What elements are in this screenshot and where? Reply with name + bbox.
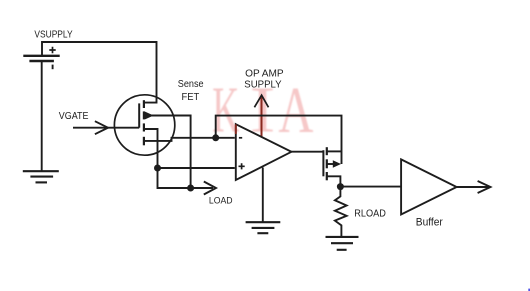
wire VGATE to gate bbox=[73, 127, 139, 129]
op-amp supply arrowhead bbox=[254, 95, 268, 107]
wire buffer output bbox=[457, 186, 489, 188]
ground (op-amp) bbox=[246, 222, 281, 233]
wire Q1 sense terminal to LOAD node bbox=[144, 116, 191, 189]
Q2 channel segment 1 bbox=[326, 147, 328, 155]
Q2 drain tick bbox=[327, 150, 342, 152]
op-amp supply red shaft bbox=[261, 96, 263, 137]
Q2 channel segment 2 bbox=[326, 159, 328, 168]
svg-text:FET: FET bbox=[182, 92, 200, 103]
node dot LOAD junction bbox=[187, 185, 194, 192]
Q2 body arrow bbox=[333, 160, 341, 168]
Q1 gate bar bbox=[138, 103, 140, 127]
svg-text:OP AMP: OP AMP bbox=[245, 68, 284, 79]
svg-text:SUPPLY: SUPPLY bbox=[244, 79, 282, 90]
wire Q2 source to buffer input bbox=[340, 186, 401, 188]
op-amp U1 triangle bbox=[236, 124, 292, 180]
VGATE arrowhead bbox=[95, 121, 108, 134]
svg-text:VGATE: VGATE bbox=[59, 111, 89, 122]
watermark KIA bbox=[212, 74, 313, 147]
node dot Q2 source junction bbox=[337, 183, 344, 190]
output arrowhead bbox=[478, 181, 491, 193]
node dot source junction bbox=[154, 165, 161, 172]
op-amp plus sign bbox=[239, 163, 245, 169]
battery plus label bbox=[49, 47, 55, 53]
svg-text:A: A bbox=[278, 74, 313, 147]
Q2 body arrow shaft bbox=[327, 163, 334, 165]
buffer U2 triangle bbox=[401, 159, 457, 214]
battery minus label bbox=[52, 65, 54, 70]
wire battery negative to ground bbox=[41, 61, 43, 171]
wire plus input bbox=[158, 167, 235, 169]
transistor Q2 gate bar bbox=[322, 150, 324, 176]
op-amp minus sign bbox=[239, 137, 242, 139]
Q1 channel segment 1 bbox=[143, 100, 145, 108]
resistor RLOAD bbox=[335, 187, 347, 237]
Q2 channel segment 3 bbox=[326, 172, 328, 180]
svg-text:LOAD: LOAD bbox=[209, 195, 233, 206]
transistor Q1 sense FET circle bbox=[114, 95, 174, 155]
wire Q1 main source down to plus input and LOAD bbox=[144, 129, 213, 188]
Q1 channel segment 4 bbox=[143, 137, 145, 146]
svg-text:Sense: Sense bbox=[178, 79, 204, 90]
battery VSUPPLY negative plate bbox=[29, 60, 54, 62]
Q2 source wire bbox=[327, 176, 341, 183]
ground (battery) bbox=[23, 171, 59, 182]
wire Q1 kelvin source to minus input bbox=[144, 138, 235, 141]
svg-text:VSUPPLY: VSUPPLY bbox=[34, 29, 72, 40]
wire VSUPPLY rail to sense FET drain bbox=[42, 42, 157, 103]
svg-text:Buffer: Buffer bbox=[416, 217, 443, 229]
op-amp red corner segment bbox=[235, 124, 237, 134]
Q1 channel segment 2 bbox=[143, 111, 145, 119]
wire op-amp output to Q2 gate bbox=[291, 151, 323, 153]
wire op-amp ground bbox=[262, 168, 264, 222]
LOAD arrowhead bbox=[204, 182, 216, 195]
wire feedback rail to Q2 drain bbox=[216, 116, 342, 164]
Q1 body arrow bbox=[145, 112, 154, 120]
battery VSUPPLY positive plate bbox=[23, 55, 59, 57]
blue corner mark bbox=[528, 289, 530, 291]
ground (RLOAD) bbox=[326, 237, 359, 250]
Q1 channel segment 3 bbox=[143, 123, 145, 131]
svg-text:RLOAD: RLOAD bbox=[354, 209, 386, 220]
node dot minus input junction bbox=[212, 134, 219, 141]
